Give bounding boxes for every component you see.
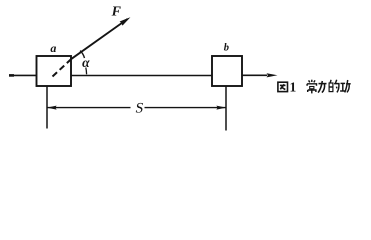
force line dashed inside block: [53, 59, 72, 77]
svg-text:F: F: [111, 5, 122, 20]
angle arc: [80, 51, 84, 58]
svg-text:b: b: [224, 43, 229, 54]
caption char 的: [329, 80, 339, 93]
wire left rope: [9, 74, 37, 76]
block b: [212, 56, 242, 86]
caption char 常: [307, 80, 316, 94]
caption char 图: [278, 82, 288, 91]
dimension line S left segment with arrow: [48, 107, 131, 109]
svg-text:a: a: [50, 41, 56, 55]
wire right rope with arrow: [242, 74, 267, 76]
svg-text:α: α: [82, 55, 90, 70]
extension line below a: [46, 86, 48, 129]
block a: [37, 56, 72, 86]
dimension line S right segment with arrow: [145, 107, 226, 109]
caption char 力: [318, 81, 326, 93]
svg-text:1: 1: [290, 80, 297, 95]
caption char 功: [340, 80, 351, 92]
force F vector: [72, 19, 128, 59]
svg-text:S: S: [134, 100, 145, 116]
wire middle rope a-b: [71, 75, 212, 77]
extension line below b: [225, 86, 227, 131]
label S: [134, 100, 145, 116]
